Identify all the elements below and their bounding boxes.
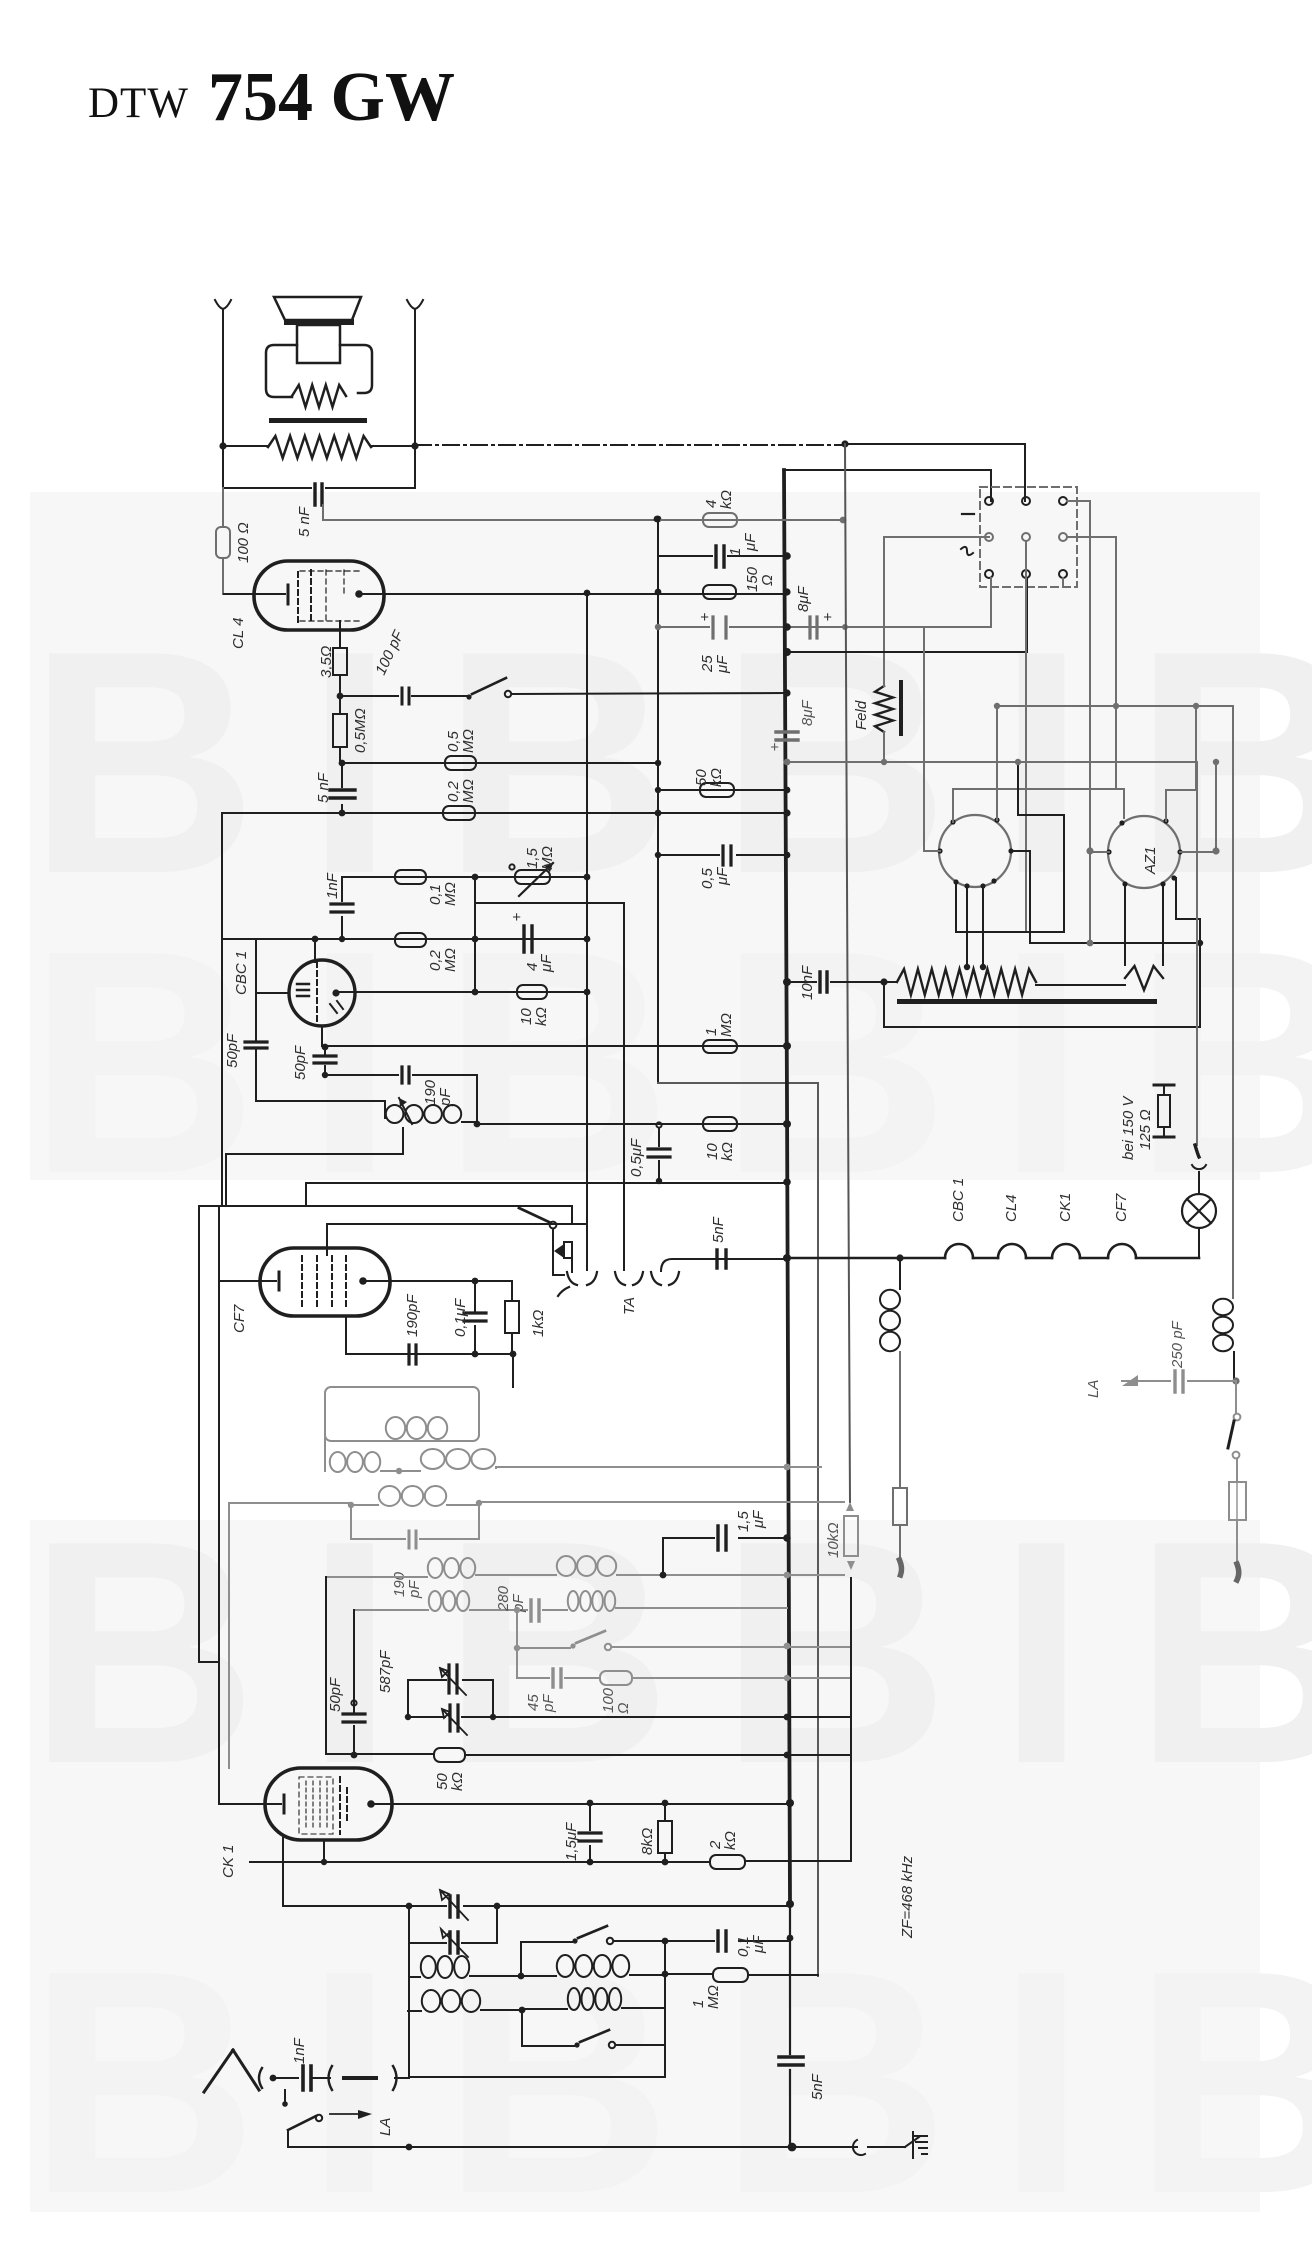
resistor 2 k&#937; <box>710 1855 745 1869</box>
potentiometer 1,5 M&#937; <box>509 864 514 869</box>
wire row 1182 <box>306 1183 787 1206</box>
wire cathode row 1862 <box>250 1578 851 1862</box>
capacitor 1,5 &#956;F AVC <box>663 1538 787 1575</box>
resistor 0,1 M&#937; <box>395 870 426 884</box>
wire pin2 right to x1116 <box>1067 537 1116 789</box>
IF third coil <box>379 1486 400 1506</box>
coil osc MW <box>421 1956 436 1978</box>
wire CK1 bottom to row 1906 <box>282 1838 284 1906</box>
wire row 1755 <box>326 1754 851 1755</box>
wire primary left <box>223 445 268 447</box>
svg-text:pF: pF <box>540 1694 557 1713</box>
svg-text:0,5MΩ: 0,5MΩ <box>352 708 369 753</box>
node 992 x475 <box>472 989 479 996</box>
svg-text:250 pF: 250 pF <box>1169 1320 1186 1369</box>
terminal TA 3 <box>651 1272 679 1285</box>
terminal TA 2 <box>615 1272 643 1285</box>
svg-text:DTW: DTW <box>88 80 189 127</box>
node 1074 <box>322 1072 328 1078</box>
heater bump CBC1 <box>945 1244 973 1258</box>
wire AZ1 left pin <box>1090 851 1109 853</box>
capacitor 190 pF IF <box>351 1503 479 1539</box>
wire row 762 lamp feed <box>787 761 1197 763</box>
svg-text:pF: pF <box>406 1580 423 1599</box>
dropper core bar <box>897 999 1157 1004</box>
node 939 x587 <box>584 936 591 943</box>
svg-text:100 Ω: 100 Ω <box>235 522 252 563</box>
wire cathode row 1046 <box>325 1045 787 1047</box>
ground hook <box>853 2140 865 2155</box>
switch tone <box>466 694 471 699</box>
node 813 bus <box>783 809 790 816</box>
speaker terminal left <box>215 300 231 309</box>
capacitor 1&#956;F <box>658 555 787 557</box>
node 250pF <box>1232 1377 1239 1384</box>
switch TA <box>550 1222 557 1229</box>
svg-text:μF: μF <box>714 655 731 674</box>
node 763 x658 <box>655 760 661 766</box>
capacitor 50pF grid <box>255 993 257 1101</box>
svg-text:μF: μF <box>750 1510 767 1529</box>
node 939 x475 <box>472 936 479 943</box>
resistor 0,2 M&#937; grid2 <box>395 933 426 947</box>
trimmer 587pF pair <box>408 1680 493 1717</box>
jack TA contact <box>553 1229 564 1275</box>
svg-text:LA: LA <box>1085 1380 1102 1398</box>
wire 1124 row <box>477 1123 659 1125</box>
node grid x315 <box>312 936 319 943</box>
svg-text:Feld: Feld <box>853 700 870 730</box>
svg-text:kΩ: kΩ <box>449 1772 466 1791</box>
capacitor 8&#956;F on bus <box>776 732 798 740</box>
tube CBC1 <box>289 960 355 1026</box>
resistor 0,5 M&#937; horizontal <box>445 756 476 770</box>
speaker magnet <box>297 325 340 363</box>
resistor mains dropper zigzag <box>897 969 1036 995</box>
wire x326 column <box>325 1577 327 1754</box>
node pot right <box>584 874 591 881</box>
heater bump CK1 <box>1052 1244 1080 1258</box>
svg-text:50pF: 50pF <box>224 1033 241 1068</box>
svg-text:8μF: 8μF <box>795 585 812 612</box>
heater bump CL4 <box>998 1244 1026 1258</box>
svg-text:MΩ: MΩ <box>705 1985 722 2009</box>
capacitor 50pF osc CK1 <box>351 1700 356 1705</box>
wire CK1 anode row <box>371 1803 790 1805</box>
wire osc coil row 1977 <box>408 1943 410 1977</box>
node anode bus <box>783 588 790 595</box>
wire 1717 row to right <box>493 1716 851 1718</box>
svg-text:MΩ: MΩ <box>442 882 459 906</box>
wire row 627 to pin <box>990 578 992 627</box>
resistor 1k&#937; <box>511 1281 513 1354</box>
wire grid row 763 <box>342 762 658 764</box>
svg-text:CL 4: CL 4 <box>230 618 247 649</box>
svg-text:TA: TA <box>621 1297 638 1315</box>
selector pins row3 <box>985 570 993 578</box>
wire row 706 <box>997 705 1233 707</box>
svg-text:MΩ: MΩ <box>460 729 477 753</box>
svg-text:μF: μF <box>742 533 759 552</box>
switch antenna LW <box>522 2010 574 2046</box>
resistor 50 k&#937; <box>434 1748 465 1762</box>
wire row 1906 <box>283 1905 790 1907</box>
svg-text:CL4: CL4 <box>1003 1194 1020 1222</box>
wire screen <box>339 621 341 648</box>
label ~ AC <box>961 547 973 555</box>
resistor 0,5M&#937; vertical <box>339 696 341 714</box>
svg-text:bei 150 V: bei 150 V <box>1120 1095 1137 1160</box>
wire socket1 bottom pins <box>956 762 1064 932</box>
node feld bottom <box>881 759 887 765</box>
svg-text:754 GW: 754 GW <box>208 59 455 136</box>
resistor 3,5&#937; <box>333 648 347 675</box>
wire cathode feedback <box>223 446 415 488</box>
wire 280 node down <box>516 1610 518 1648</box>
resistor 50k&#937; row 790 <box>658 789 787 791</box>
node B+ feed <box>841 440 848 447</box>
wire 470 to mains <box>784 470 991 501</box>
capacitor 0,5&#956;F row 855 <box>658 854 787 856</box>
svg-text:5nF: 5nF <box>710 1216 727 1243</box>
capacitor 4&#956;F <box>475 938 587 940</box>
wire 1502 to 10k <box>479 1501 844 1503</box>
wire socket1 right pin <box>1011 851 1200 943</box>
tube CL4 <box>254 561 384 630</box>
arrow LA <box>1122 1375 1138 1386</box>
resistor 10k&#937; row 1124 <box>659 1123 787 1125</box>
wire row 1224 grid <box>327 1224 587 1255</box>
svg-text:1,5μF: 1,5μF <box>563 1822 580 1861</box>
title DTW 754 GW <box>88 59 455 136</box>
capacitor 0,1&#956;F <box>474 1281 476 1354</box>
svg-text:0,1μF: 0,1μF <box>452 1298 469 1337</box>
wire socket1 TL pin loop <box>953 789 1124 822</box>
wire x1237 mains chain top <box>1232 706 1234 1290</box>
svg-text:50pF: 50pF <box>327 1677 344 1712</box>
svg-text:CF7: CF7 <box>1113 1193 1130 1222</box>
wire socket1 left pin <box>924 627 940 851</box>
wire grid lead <box>314 939 316 962</box>
resistor 4 k&#937; <box>323 519 843 521</box>
wire LA switch branch <box>284 2090 286 2104</box>
svg-text:+: + <box>823 609 832 626</box>
wire x845 vertical <box>845 444 850 1502</box>
switch IF short <box>514 1645 520 1651</box>
wire grid top row 939 <box>222 938 587 940</box>
svg-text:kΩ: kΩ <box>533 1007 550 1026</box>
ground symbol <box>905 2132 919 2158</box>
antenna input coil LW <box>568 1988 580 2010</box>
svg-text:1nF: 1nF <box>324 872 341 899</box>
svg-text:BIBBIB: BIBBIB <box>28 1905 1312 2248</box>
wire x199 long vertical <box>199 1206 219 1662</box>
svg-text:5 nF: 5 nF <box>296 506 313 537</box>
wire B+ bus main <box>784 470 790 1904</box>
mains voltage selector dashed box <box>980 487 1077 587</box>
wire row 992 anode <box>336 991 587 993</box>
wire cathode <box>321 1026 323 1046</box>
wire AZ1 TR pin <box>1166 706 1196 821</box>
wire x665 column <box>664 1941 666 2077</box>
resistor 150&#937; <box>703 585 736 599</box>
IF secondary row <box>324 1420 326 1471</box>
terminal TA speaker jack <box>558 1272 597 1296</box>
wire x475 rung <box>474 877 476 992</box>
wire AZ1 BR pin <box>1176 878 1200 1027</box>
oscillator coil <box>386 1105 404 1123</box>
svg-text:5nF: 5nF <box>809 2073 826 2100</box>
wire 5nF HF bypass row 1259 <box>661 1259 787 1271</box>
capacitor 5nF <box>717 1250 726 1268</box>
transformer core bar <box>269 418 367 423</box>
wire pin1 right to x1090 <box>1067 501 1090 943</box>
svg-text:CF7: CF7 <box>231 1304 248 1333</box>
wire 1467 to x818 <box>496 1466 821 1468</box>
label = DC <box>962 513 974 515</box>
wire x587 long vertical <box>586 593 588 1270</box>
capacitor 1nF antenna <box>303 2066 311 2090</box>
svg-text:CK1: CK1 <box>1057 1193 1074 1222</box>
wire 50pF to coil <box>256 1101 385 1118</box>
tube CK1 <box>265 1768 392 1840</box>
capacitor 8&#956;F main <box>810 617 817 638</box>
capacitor 100pF <box>340 695 468 697</box>
svg-text:kΩ: kΩ <box>708 768 725 787</box>
svg-text:LA: LA <box>377 2118 394 2136</box>
svg-text:CBC 1: CBC 1 <box>950 1178 967 1222</box>
antenna terminal <box>259 2068 262 2088</box>
svg-text:ZF=468 kHz: ZF=468 kHz <box>899 1855 916 1939</box>
wire 1503 left drop <box>229 1503 351 1768</box>
svg-text:μF: μF <box>538 954 555 973</box>
wire socket1 TR pin <box>996 706 998 820</box>
tube CK1 inner grid bottom <box>323 1840 325 1862</box>
capacitor 1nF <box>341 877 343 939</box>
wire pin3 right stub <box>1062 578 1064 587</box>
node primary left <box>219 442 226 449</box>
wire x219 to CK1 <box>218 1206 220 1804</box>
socket tube 1 <box>939 815 1011 887</box>
pilot lamp <box>1198 1228 1200 1258</box>
capacitor 5nF coupling <box>341 763 343 813</box>
svg-text:kΩ: kΩ <box>719 1142 736 1161</box>
ground rail <box>288 2146 857 2148</box>
annotation resistor 125 ohm bei 150V <box>1154 1084 1174 1087</box>
wire primary right <box>371 445 415 447</box>
svg-text:CBC 1: CBC 1 <box>233 951 250 995</box>
speaker terminal right <box>407 300 423 309</box>
node anode x658 <box>655 589 662 596</box>
switch osc LW short <box>521 1942 572 1976</box>
heater zigzag AZ1 <box>1125 966 1163 990</box>
capacitor 45pF <box>517 1648 549 1678</box>
svg-text:MΩ: MΩ <box>442 948 459 972</box>
svg-text:Ω: Ω <box>759 575 776 586</box>
tube CF7 <box>260 1248 390 1316</box>
capacitor 1,5&#956;F <box>589 1803 591 1862</box>
antenna symbol <box>204 2050 259 2092</box>
svg-text:BIBBIB: BIBBIB <box>28 885 1312 1240</box>
wire CL4 anode <box>359 593 787 595</box>
svg-text:μF: μF <box>750 1935 767 1954</box>
node 1nF <box>339 936 345 942</box>
wire 10nF row 982 <box>787 981 897 983</box>
svg-text:+: + <box>700 609 709 626</box>
node screen <box>337 693 344 700</box>
wire ground rail 1027 <box>884 982 1200 1027</box>
resistor 1 M&#937; cathode <box>703 1040 737 1053</box>
heater bump CF7 <box>1108 1244 1136 1258</box>
node 0,5M <box>339 760 346 767</box>
antenna input coil MW <box>422 1990 440 2012</box>
capacitor 5nF bus bottom <box>789 1904 791 2147</box>
node cathode <box>322 1044 329 1051</box>
capacitor 50pF cathode <box>324 1047 326 1075</box>
svg-text:μF: μF <box>714 867 731 886</box>
wire x658 column <box>657 519 659 1083</box>
svg-text:125 Ω: 125 Ω <box>1137 1109 1154 1150</box>
svg-text:8kΩ: 8kΩ <box>639 1828 656 1855</box>
capacitor 10nF <box>820 972 827 992</box>
capacitor 250pF <box>1122 1380 1236 1382</box>
resistor 100 &#937; <box>600 1671 632 1685</box>
capacitor 280pF <box>517 1609 567 1611</box>
resistor 10 k&#937; <box>517 985 547 999</box>
node anode x586 <box>584 590 591 597</box>
IF transformer box <box>512 1354 514 1387</box>
svg-text:5 nF: 5 nF <box>315 772 332 803</box>
watermark band lower <box>28 1475 1312 2248</box>
svg-text:190pF: 190pF <box>404 1294 421 1337</box>
voice coil resistor <box>292 385 346 407</box>
node 5nF <box>339 810 346 817</box>
wire pot to 903 jog <box>475 903 624 1270</box>
wire row 1354 <box>346 1316 512 1354</box>
wire AZ1 right pin <box>1180 851 1216 853</box>
bandfilter row1 coils <box>326 1576 427 1578</box>
wire row 877 <box>342 876 587 878</box>
svg-text:BIBBIB: BIBBIB <box>28 1475 1312 1830</box>
svg-text:MΩ: MΩ <box>539 846 556 870</box>
watermark band upper <box>28 492 1312 1240</box>
node 813 x658 <box>655 810 662 817</box>
capacitor 0,1 &#956;F <box>665 1906 790 1941</box>
resistor 10k&#937; AVC vertical <box>844 1516 858 1556</box>
node tone bus <box>783 689 790 696</box>
svg-text:587pF: 587pF <box>377 1650 394 1693</box>
svg-text:10nF: 10nF <box>799 965 816 1000</box>
wire CF7 anode <box>363 1280 512 1282</box>
svg-text:Ω: Ω <box>615 1703 632 1714</box>
resistor 8k&#937; <box>664 1803 666 1862</box>
bandfilter row2 coils <box>354 1609 428 1611</box>
svg-text:50pF: 50pF <box>292 1045 309 1080</box>
hum-bucking coil frame <box>266 345 372 397</box>
resistor 100&#937; <box>222 488 224 594</box>
coil Feld field winding <box>875 686 893 732</box>
node pot left <box>472 874 479 881</box>
coil RF choke <box>899 1258 901 1289</box>
svg-text:+: + <box>512 909 521 926</box>
wire x408 column <box>408 1906 410 2077</box>
selector pins row2 <box>985 533 993 541</box>
node 992 x587 <box>584 989 591 996</box>
svg-text:kΩ: kΩ <box>718 490 735 509</box>
wire x354 column <box>353 1610 355 1712</box>
wire to connector tip <box>1236 1520 1238 1568</box>
wire coil bottom tap <box>226 1128 403 1206</box>
tube AZ1 <box>1108 816 1180 888</box>
resistor 0,2 M&#937; <box>443 806 475 820</box>
svg-text:10kΩ: 10kΩ <box>825 1522 842 1558</box>
capacitor 190pF <box>409 1345 416 1364</box>
transformer primary winding <box>268 436 371 458</box>
capacitor 5nF <box>223 487 415 489</box>
wire feld top <box>884 537 989 686</box>
IF primary coil <box>386 1417 405 1439</box>
svg-text:8μF: 8μF <box>799 699 816 726</box>
fuse <box>1229 1482 1246 1520</box>
loudspeaker horn <box>274 297 361 320</box>
svg-text:MΩ: MΩ <box>460 779 477 803</box>
wire row 1206 <box>199 1206 572 1224</box>
svg-text:MΩ: MΩ <box>718 1013 735 1037</box>
svg-text:0,5μF: 0,5μF <box>628 1138 645 1177</box>
wire 443 corner to mains <box>1024 444 1026 501</box>
trimmer cap osc upper <box>450 1896 458 1917</box>
node x658 519 <box>655 516 662 523</box>
heater chain wire <box>787 1257 945 1260</box>
wire coil right <box>476 1075 478 1124</box>
wire AZ1 heater pins down <box>1125 884 1163 965</box>
wire 5nF tap <box>323 505 657 520</box>
selector pins row1 <box>985 497 993 505</box>
node 1046 bus <box>783 1042 791 1050</box>
wire grid row 813 <box>222 812 787 814</box>
resistor 1 M&#937; osc <box>665 1974 818 1975</box>
svg-text:1nF: 1nF <box>291 2037 308 2064</box>
svg-text:3,5Ω: 3,5Ω <box>318 646 335 678</box>
svg-text:CK 1: CK 1 <box>220 1845 237 1878</box>
node dropper left <box>880 978 887 985</box>
wire dropper to AZ1 heater <box>1036 984 1125 986</box>
svg-text:kΩ: kΩ <box>722 1831 739 1850</box>
svg-text:1kΩ: 1kΩ <box>530 1310 547 1337</box>
wire dash-dot B+ feed <box>415 444 845 446</box>
coil antenna choke right <box>1232 706 1234 1298</box>
wire pin2 mid down x1046 <box>1025 541 1027 932</box>
trimmer cap osc lower <box>409 1906 497 1943</box>
node primary right <box>411 442 418 449</box>
wire row 652 anode supply <box>787 578 1027 652</box>
switch wave change <box>1235 1381 1237 1413</box>
capacitor 25&#956;F <box>658 626 991 628</box>
wire jog 658 to 818 <box>658 1083 818 1976</box>
wire LA to ground rail <box>287 2132 289 2147</box>
wire row 2077 <box>409 2076 665 2078</box>
coil osc LW <box>557 1955 574 1977</box>
wire lamp top hook <box>1192 1165 1206 1194</box>
svg-text:+: + <box>770 739 779 756</box>
capacitor 190pF osc <box>325 1074 477 1076</box>
wire left column x222 <box>221 813 223 1206</box>
svg-text:AZ1: AZ1 <box>1142 846 1159 875</box>
capacitor 0,5&#956;F TA <box>656 1122 661 1127</box>
plug jack antenna <box>329 2066 397 2090</box>
